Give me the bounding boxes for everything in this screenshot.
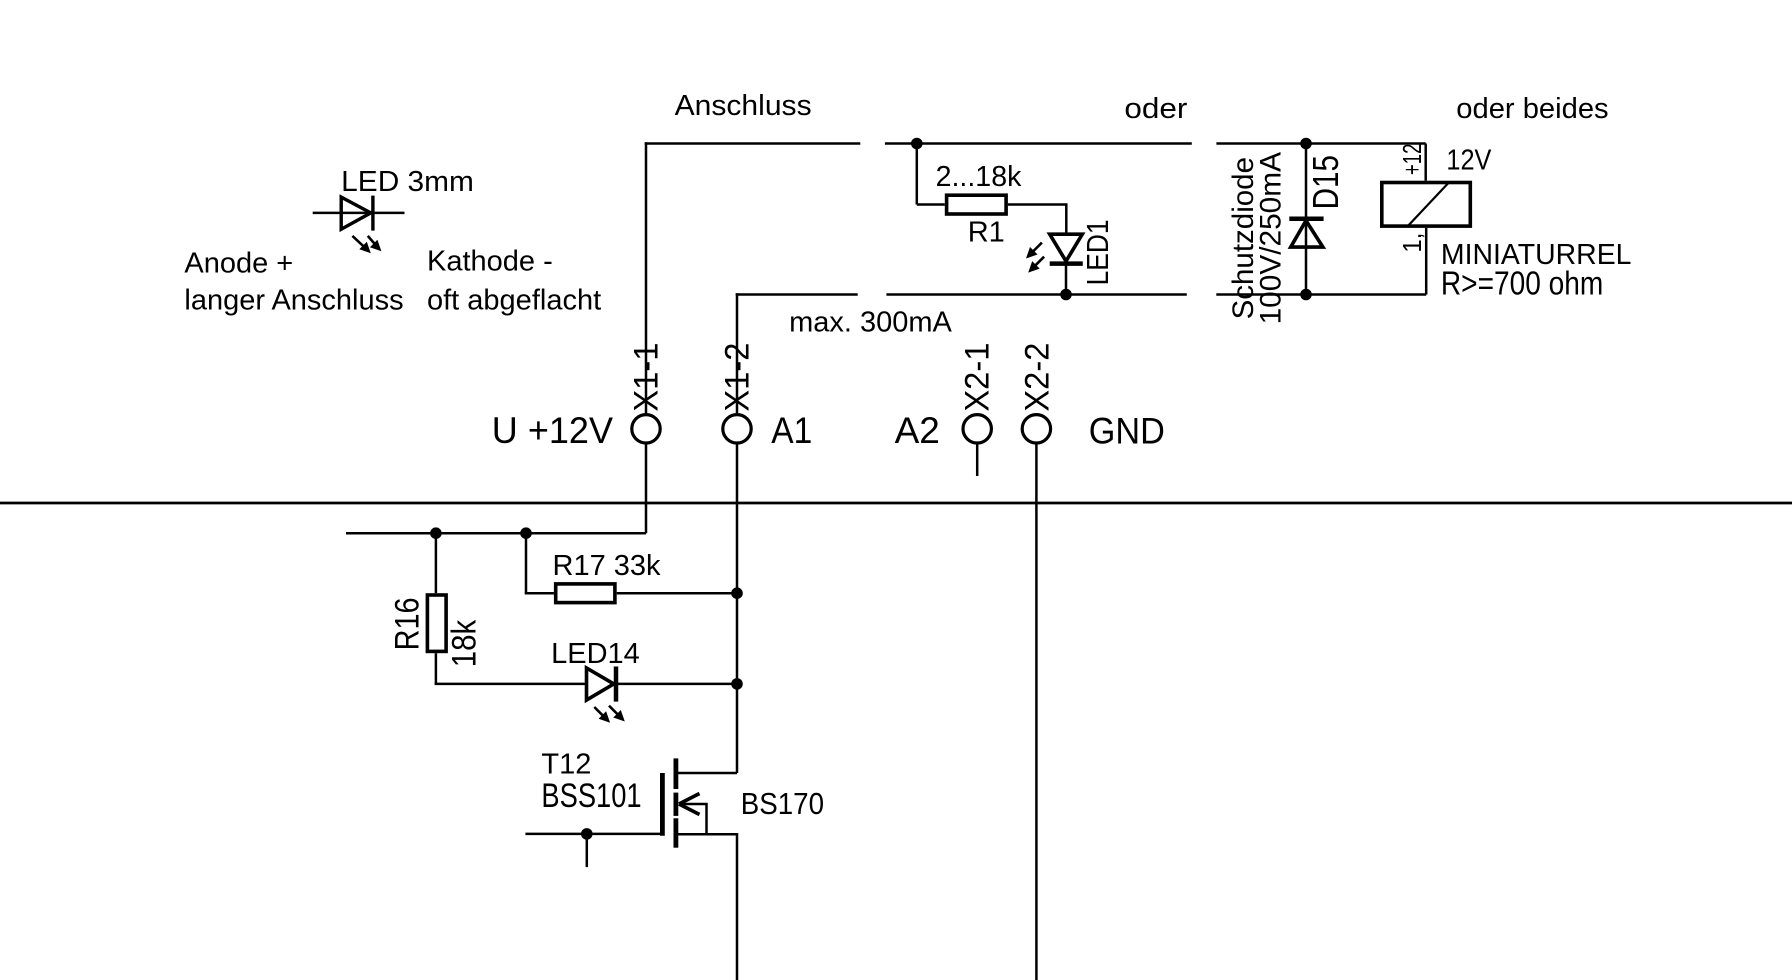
wire X2-1 stub below <box>976 444 979 476</box>
wire lower horizontal supply <box>346 532 646 535</box>
wire LED14 anode <box>435 683 587 686</box>
transistor T12 channel segment 3 <box>674 818 679 847</box>
junction dot A1 / R17 <box>731 587 743 599</box>
transistor T12 channel segment 1 <box>674 758 679 789</box>
LED14 light arrow b <box>609 706 625 722</box>
svg-text:LED1: LED1 <box>1080 219 1115 285</box>
relay K1 coil body <box>1382 183 1471 227</box>
svg-text:X2-2: X2-2 <box>1019 343 1057 412</box>
LED1 light arrow b <box>1028 257 1044 273</box>
svg-text:U +12V: U +12V <box>492 410 614 451</box>
resistor R16 body <box>427 595 446 651</box>
transistor T12 channel segment 2 <box>674 793 679 816</box>
svg-text:18k: 18k <box>446 619 484 667</box>
junction dot gate lead <box>581 828 593 840</box>
resistor R1 body <box>947 195 1007 214</box>
terminal circle X2-1 <box>963 415 991 443</box>
resistor R17 body <box>556 584 615 603</box>
svg-text:langer Anschluss: langer Anschluss <box>184 285 403 317</box>
svg-text:Kathode -: Kathode - <box>427 246 553 278</box>
svg-text:GND: GND <box>1089 411 1165 452</box>
svg-text:A1: A1 <box>771 410 812 451</box>
svg-text:X2-1: X2-1 <box>958 343 996 412</box>
svg-text:X1-2: X1-2 <box>718 343 756 412</box>
relay K1 coil diagonal <box>1408 183 1449 226</box>
svg-text:LED 3mm: LED 3mm <box>341 166 474 198</box>
wire X1-1 below circle <box>645 444 648 533</box>
svg-text:max. 300mA: max. 300mA <box>789 307 952 339</box>
svg-text:+12: +12 <box>1397 144 1427 175</box>
svg-text:12V: 12V <box>1446 144 1492 176</box>
svg-text:A2: A2 <box>895 410 940 451</box>
T12 body arrow <box>679 794 707 835</box>
wire gate stub down <box>586 834 589 867</box>
separator line <box>0 502 1792 505</box>
diode D15 symbol <box>1289 219 1323 247</box>
LED 3mm legend light arrow b <box>368 236 382 251</box>
svg-text:X1-1: X1-1 <box>628 343 666 412</box>
junction dot bottom rail / D15 <box>1300 289 1312 301</box>
wire T12 drain <box>676 772 737 775</box>
LED D-LED1 symbol <box>1050 234 1083 294</box>
junction dot bottom rail / LED1 <box>1060 289 1072 301</box>
wire X1-2 / A1 net vertical <box>736 444 739 773</box>
svg-text:Anode +: Anode + <box>184 248 293 280</box>
LED 3mm legend light arrow a <box>352 236 370 253</box>
svg-text:100V/250mA: 100V/250mA <box>1255 152 1288 324</box>
svg-text:oder: oder <box>1124 93 1187 125</box>
svg-text:oft abgeflacht: oft abgeflacht <box>427 285 601 317</box>
terminal circle X1-1 <box>632 415 660 443</box>
relay K1 bottom pin wire <box>1425 228 1428 295</box>
LED 3mm legend symbol <box>313 196 405 231</box>
svg-text:oder beides: oder beides <box>1456 93 1608 125</box>
wire X1-1 drop from top rail <box>645 142 648 414</box>
wire top rail segment 3 (oder beides) <box>1216 142 1425 145</box>
wire R1 branch horizontal left <box>917 203 945 206</box>
junction dot top rail / R1 <box>911 138 923 150</box>
svg-text:BS170: BS170 <box>741 786 824 821</box>
svg-text:T12: T12 <box>541 748 591 780</box>
wire R17 branch vertical <box>525 533 528 593</box>
svg-text:R>=700 ohm: R>=700 ohm <box>1441 264 1603 301</box>
wire R16 bottom <box>435 653 438 684</box>
svg-text:Anschluss: Anschluss <box>675 90 812 122</box>
wire T12 gate lead <box>525 833 660 836</box>
wire LED14 cathode to A1 net <box>616 683 737 686</box>
svg-text:BSS101: BSS101 <box>541 777 641 815</box>
terminal circle X1-2 <box>723 415 751 443</box>
LED14 light arrow a <box>594 707 610 723</box>
junction dot top rail / D15 <box>1300 138 1312 150</box>
transistor T12 gate bar <box>660 773 665 836</box>
wire top rail segment 2 (oder) <box>885 142 1192 145</box>
wire bottom rail segment 2 <box>886 293 1186 296</box>
junction dot supply / R17 <box>520 527 532 539</box>
wire top rail segment 1 (Anschluss) <box>645 142 861 145</box>
svg-text:R16: R16 <box>389 597 427 650</box>
wire T12 source <box>676 834 737 980</box>
wire R17 left <box>525 592 554 595</box>
svg-text:1,: 1, <box>1397 233 1427 253</box>
relay K1 top pin wire (+12) <box>1424 144 1427 181</box>
wire R1 to LED1 <box>1008 205 1066 235</box>
svg-text:R17 33k: R17 33k <box>553 550 662 582</box>
wire R16 top <box>435 533 438 593</box>
junction dot A1 / LED14 <box>731 678 743 690</box>
terminal circle X2-2 <box>1022 415 1050 443</box>
svg-text:R1: R1 <box>968 216 1005 248</box>
wire R17 right to A1 net <box>617 592 737 595</box>
wire R1 branch vertical <box>916 144 919 205</box>
wire bottom rail segment 1 <box>736 293 858 296</box>
diode D15 vertical wire <box>1305 144 1308 295</box>
junction dot supply / R16 <box>430 527 442 539</box>
wire X2-2 / GND net vertical <box>1035 444 1038 980</box>
svg-text:2...18k: 2...18k <box>936 161 1022 193</box>
svg-text:D15: D15 <box>1305 155 1346 209</box>
LED1 light arrow a <box>1026 243 1042 259</box>
wire X1-2 drop from bottom rail <box>736 293 739 414</box>
wire bottom rail segment 3 <box>1216 293 1426 296</box>
svg-text:LED14: LED14 <box>551 638 640 670</box>
LED D-LED14 symbol <box>587 667 617 702</box>
